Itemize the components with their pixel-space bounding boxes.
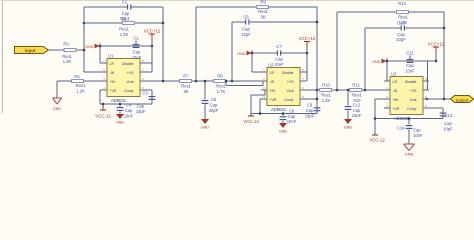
wire feedback right vertical stage2 <box>316 7 319 90</box>
port output <box>451 96 474 103</box>
negative rail stage1 <box>100 103 152 106</box>
ground symbol C12 <box>344 119 353 129</box>
resistor R10 1.3K <box>320 82 332 91</box>
svg-text:+VS: +VS <box>287 80 294 84</box>
wire feedback top C1 row <box>84 6 163 9</box>
capacitor C6 10pF feedback U2 <box>243 14 249 24</box>
negative rail stage2 <box>251 112 317 115</box>
svg-text:Comp: Comp <box>284 98 293 102</box>
label R3 value <box>119 27 129 37</box>
svg-text:10nF: 10nF <box>405 68 415 73</box>
wire +IN U2 to rail <box>251 90 267 114</box>
svg-text:Res1: Res1 <box>62 54 72 59</box>
capacitor C10 10pF feedback U3 <box>397 20 405 30</box>
svg-text:Res1: Res1 <box>76 83 86 88</box>
junction rail1 VCC-12 <box>102 103 105 106</box>
wire GND port to LR pin U2 <box>252 53 261 72</box>
wire comp pin U1 loop <box>140 90 152 104</box>
junction C12 tap <box>347 89 350 92</box>
svg-text:R10: R10 <box>322 82 330 87</box>
op-amp U3 AD8021 <box>384 71 429 121</box>
junction GND port stage1 <box>99 45 102 48</box>
svg-text:Cap: Cap <box>413 128 421 133</box>
wire input to R0 <box>49 49 64 52</box>
wire jog into -IN U2 <box>226 81 263 86</box>
svg-text:C14: C14 <box>397 125 405 130</box>
wire -VS U2 to rail <box>260 99 261 114</box>
negative rail stage3 <box>375 117 443 120</box>
svg-text:+IN: +IN <box>110 80 116 84</box>
wire R8 to -IN U2 <box>226 80 267 83</box>
svg-text:1.3K: 1.3K <box>322 98 331 103</box>
svg-text:R12: R12 <box>398 1 406 6</box>
svg-text:+VR: +VR <box>270 98 277 102</box>
svg-text:VCC-12: VCC-12 <box>95 114 111 119</box>
port input <box>15 47 49 54</box>
svg-text:+VS: +VS <box>127 71 134 75</box>
wire comp pin U3 <box>423 108 443 119</box>
wire feedback mid C10 row stage3 <box>365 28 444 90</box>
label C6 value <box>241 26 251 36</box>
junction feedback R3 tap <box>83 22 86 25</box>
capacitor C1 10pF feedback <box>122 0 131 10</box>
svg-text:Vout: Vout <box>409 98 416 102</box>
svg-text:10pF: 10pF <box>443 126 453 131</box>
svg-text:-IN: -IN <box>110 71 115 75</box>
svg-text:Cap: Cap <box>397 32 405 37</box>
svg-text:AD8021: AD8021 <box>111 98 127 103</box>
wire Vout U3 to output <box>423 98 450 101</box>
resistor R3 1.0K feedback <box>120 16 134 25</box>
svg-text:GND: GND <box>201 125 210 129</box>
capacitor C9 10pF Vout2 rail <box>314 90 321 114</box>
svg-text:C12: C12 <box>353 102 361 107</box>
wire +IN U3 to rail <box>375 99 384 119</box>
junction GND port stage2 <box>251 52 254 55</box>
svg-text:3K: 3K <box>183 89 188 94</box>
svg-text:C4: C4 <box>126 103 132 108</box>
label C7 value <box>274 57 284 67</box>
junction C10 tap <box>364 89 367 92</box>
ground symbol C4 <box>116 114 125 124</box>
svg-text:Cap: Cap <box>306 108 314 113</box>
svg-text:LR: LR <box>270 71 275 75</box>
wire feedback mid C6 row stage2 <box>232 22 317 81</box>
svg-text:+VS: +VS <box>410 89 417 93</box>
svg-text:Disable: Disable <box>282 71 294 75</box>
junction feedback right stage1 <box>162 22 165 25</box>
junction C5 node A2 <box>204 80 207 83</box>
svg-text:output: output <box>456 97 469 102</box>
junction GND port stage3 <box>386 60 389 63</box>
svg-text:C1: C1 <box>122 0 128 5</box>
ground symbol C14 big <box>404 144 415 156</box>
svg-text:+VR: +VR <box>393 107 400 111</box>
svg-text:20pF: 20pF <box>209 108 219 113</box>
power port VCC-12 stage1 <box>95 104 111 119</box>
svg-text:10pF: 10pF <box>305 113 315 118</box>
svg-text:Vout: Vout <box>126 80 133 84</box>
svg-text:10pF: 10pF <box>352 113 362 118</box>
svg-text:+IN: +IN <box>393 98 399 102</box>
svg-text:Disable: Disable <box>405 80 417 84</box>
wire R7 to R8 <box>192 80 213 83</box>
svg-text:GND: GND <box>344 125 353 129</box>
wire R4 to ground arrow <box>56 81 59 98</box>
svg-text:10pF: 10pF <box>396 37 406 42</box>
wire +IN U1 row <box>57 80 101 83</box>
junction Vout U2 feedback <box>316 89 319 92</box>
svg-text:10nF: 10nF <box>124 113 134 118</box>
capacitor C3 10pF comp U1 <box>142 91 155 100</box>
wire Vout U1 to interstage <box>140 80 179 83</box>
svg-text:Res1: Res1 <box>181 84 191 89</box>
svg-text:LR: LR <box>110 62 115 66</box>
label R8 value <box>216 84 226 94</box>
wire comp pin U2 loop <box>300 98 317 101</box>
svg-text:10pF: 10pF <box>241 32 251 37</box>
power port VCC+12 stage2 <box>299 36 316 53</box>
ground arrow stage1 +IN <box>53 98 62 104</box>
svg-text:Cap: Cap <box>210 102 218 107</box>
junction feedback right stage3 <box>443 27 446 30</box>
svg-text:VCC+12: VCC+12 <box>144 29 161 34</box>
svg-text:GND: GND <box>116 120 125 124</box>
svg-text:R4: R4 <box>74 74 80 79</box>
svg-text:Cap: Cap <box>122 11 130 16</box>
op-amp U1 AD8021 <box>101 53 146 103</box>
capacitor C8 10nF rail decoupling U2 <box>280 114 287 124</box>
svg-text:VCC-12: VCC-12 <box>369 138 385 143</box>
label C10 value <box>396 32 406 42</box>
junction node A2 <box>195 80 198 83</box>
wire GND to VCC decoupling row stage3 <box>387 60 436 63</box>
svg-text:Cap: Cap <box>406 63 414 68</box>
svg-text:R3: R3 <box>120 16 126 21</box>
svg-text:VCC+12: VCC+12 <box>428 42 445 47</box>
junction C6 tap <box>231 80 234 83</box>
wire GND to VCC decoupling row stage2 <box>252 52 307 55</box>
svg-text:R0: R0 <box>63 42 69 47</box>
svg-text:10pF: 10pF <box>136 109 146 114</box>
svg-text:Res1: Res1 <box>258 9 268 14</box>
svg-text:Cap: Cap <box>242 26 250 31</box>
svg-text:Res1: Res1 <box>398 14 408 19</box>
svg-text:Res1: Res1 <box>321 93 331 98</box>
wire +VS riser U3 <box>423 61 428 90</box>
svg-text:GND: GND <box>405 151 414 156</box>
capacitor C2 10nF decoupling <box>133 36 140 48</box>
wire feedback right vertical stage3 <box>443 12 446 99</box>
svg-text:Res1: Res1 <box>216 84 226 89</box>
wire feedback right vertical stage1 <box>162 7 165 81</box>
wire R10 to R11 <box>332 89 349 92</box>
label C1 value <box>121 11 131 21</box>
resistor R4 1.2K bias <box>72 74 84 82</box>
junction VCC+12 stage2 <box>306 52 309 55</box>
svg-text:1.0K: 1.0K <box>63 59 72 64</box>
svg-text:+IN: +IN <box>270 89 276 93</box>
label R7 value <box>181 84 191 94</box>
capacitor C11 10nF decoupling U3 <box>406 51 414 63</box>
svg-text:C11: C11 <box>406 51 414 56</box>
junction VCC+12 stage1 <box>151 45 154 48</box>
wire GND port to LR pin U3 <box>384 61 387 81</box>
wire R11 to -IN U3 <box>362 89 384 92</box>
svg-text:Res1: Res1 <box>352 93 362 98</box>
capacitor C7 10nF decoupling U2 <box>276 44 282 56</box>
junction node A3 <box>336 89 339 92</box>
junction comp U2 rail <box>316 98 319 101</box>
svg-text:GND: GND <box>237 52 246 56</box>
ground symbol C5 <box>201 119 210 129</box>
svg-text:10nF: 10nF <box>274 62 284 67</box>
label C4 value <box>124 103 134 119</box>
svg-text:Cap: Cap <box>133 50 141 55</box>
wire +VS riser U1 <box>140 46 152 72</box>
junction rail2 -VS <box>259 112 262 115</box>
svg-text:R8: R8 <box>217 73 223 78</box>
label R0 value <box>62 54 72 64</box>
capacitor C14 10nF rail decoupling U3 <box>406 119 413 145</box>
svg-text:R9: R9 <box>260 0 266 4</box>
wire feedback top R9 row stage2 <box>196 7 317 81</box>
wire feedback top R12 row stage3 <box>337 12 444 90</box>
svg-text:U3: U3 <box>391 71 397 76</box>
label C2 value <box>132 50 142 60</box>
svg-text:U1: U1 <box>108 53 114 58</box>
label C3 value <box>136 104 146 114</box>
ground symbol C8 <box>279 123 288 133</box>
wire +VS riser U2 <box>300 53 307 81</box>
svg-text:C3: C3 <box>142 91 148 96</box>
label R12 value <box>398 14 408 24</box>
svg-text:-IN: -IN <box>393 89 398 93</box>
power port VCC-12 stage2 <box>243 114 259 125</box>
wire node A1 to -IN U1 <box>84 71 101 74</box>
wire GND to VCC decoupling row stage1 <box>100 45 152 48</box>
node A1 vertical <box>83 7 86 72</box>
label R10 value <box>321 93 331 103</box>
svg-text:GND: GND <box>85 45 94 49</box>
svg-text:VCC-12: VCC-12 <box>243 119 259 124</box>
ground power port stage1 decoupling <box>85 43 100 48</box>
svg-text:Comp: Comp <box>407 107 416 111</box>
svg-text:R7: R7 <box>183 73 189 78</box>
svg-text:Cap: Cap <box>444 121 452 126</box>
label R11 value <box>352 93 362 103</box>
svg-text:C2: C2 <box>133 36 139 41</box>
label C9 value <box>305 103 315 119</box>
svg-text:GND: GND <box>53 107 62 111</box>
svg-text:10nF: 10nF <box>287 119 297 124</box>
label C13 value <box>443 121 453 131</box>
svg-text:Cap: Cap <box>353 108 361 113</box>
svg-text:Res1: Res1 <box>119 27 129 32</box>
resistor R9 3K feedback U2 <box>257 0 269 9</box>
svg-text:10nF: 10nF <box>413 133 423 138</box>
wire GND port to LR pin U1 <box>100 46 101 63</box>
wire R0 to node A1 <box>77 49 85 52</box>
svg-text:C8: C8 <box>289 108 295 113</box>
op-amp U2 AD8021 <box>261 62 306 112</box>
svg-text:input: input <box>25 48 36 53</box>
svg-text:Cap: Cap <box>125 108 133 113</box>
junction jog <box>225 80 228 83</box>
svg-text:LR: LR <box>393 80 398 84</box>
wire Vout U2 to interstage <box>300 89 319 92</box>
resistor R11 910 <box>350 82 362 91</box>
svg-text:VCC+12: VCC+12 <box>299 36 316 41</box>
wire feedback mid R3 row <box>84 22 163 25</box>
capacitor C12 10pF node A3 shunt <box>345 90 352 119</box>
svg-text:GND: GND <box>279 129 288 133</box>
svg-text:Disable: Disable <box>122 62 134 66</box>
svg-text:U2: U2 <box>268 62 274 67</box>
label C11 value <box>405 63 415 73</box>
svg-text:1.0K: 1.0K <box>120 32 129 37</box>
power port VCC+12 stage1 <box>144 29 161 47</box>
junction node A1 <box>83 49 86 52</box>
junction feedback right stage2 <box>316 21 319 24</box>
power port VCC+12 stage3 <box>428 42 445 62</box>
capacitor C13 10pF comp U3 <box>440 113 453 118</box>
label C8 value <box>287 108 297 124</box>
svg-text:C13: C13 <box>445 113 453 118</box>
wire -VS U1 to rail <box>100 90 107 104</box>
capacitor C5 20pF node A2 shunt <box>202 81 209 119</box>
svg-text:C6: C6 <box>243 14 249 19</box>
capacitor C4 10nF rail decoupling <box>117 104 124 114</box>
junction rail3 C14 <box>408 117 411 120</box>
svg-text:Cap: Cap <box>288 114 296 119</box>
sheet border <box>0 0 474 113</box>
svg-text:Vout: Vout <box>286 89 293 93</box>
label C14 value <box>413 128 423 138</box>
svg-text:1.7K: 1.7K <box>217 89 226 94</box>
label C12 value <box>352 102 362 118</box>
resistor R8 1.7K <box>214 73 226 82</box>
junction rail1 C4 <box>119 103 122 106</box>
resistor R12 1.3K feedback U3 <box>397 1 409 13</box>
svg-text:+VR: +VR <box>110 89 117 93</box>
svg-text:R11: R11 <box>352 82 360 87</box>
junction Vout U1 feedback <box>162 80 165 83</box>
svg-text:1.2K: 1.2K <box>76 89 85 94</box>
svg-text:C10: C10 <box>397 20 405 25</box>
svg-text:Comp: Comp <box>124 89 133 93</box>
resistor R0 1.0K <box>63 42 76 52</box>
junction rail2 C8 <box>282 112 285 115</box>
ground power port stage3 decoupling <box>372 58 387 63</box>
label R9 value <box>258 9 268 19</box>
svg-text:C5: C5 <box>211 97 217 102</box>
svg-text:GND: GND <box>372 60 381 64</box>
svg-text:Cap: Cap <box>275 57 283 62</box>
svg-text:3K: 3K <box>260 15 265 20</box>
junction VCC+12 stage3 <box>435 60 438 63</box>
junction Vout U3 riser blob <box>426 98 428 100</box>
ground power port stage2 decoupling <box>237 50 252 55</box>
svg-text:-IN: -IN <box>270 80 275 84</box>
junction Vout U3 feedback <box>443 98 446 101</box>
svg-text:C7: C7 <box>276 44 282 49</box>
svg-text:C9: C9 <box>307 103 313 108</box>
label R4 value <box>76 83 86 93</box>
junction rail3 VCC-12 <box>374 117 377 120</box>
power port VCC-12 stage3 <box>369 119 385 143</box>
svg-text:AD8021: AD8021 <box>271 107 287 112</box>
resistor R7 3K <box>180 73 192 82</box>
label C5 value <box>209 97 219 113</box>
